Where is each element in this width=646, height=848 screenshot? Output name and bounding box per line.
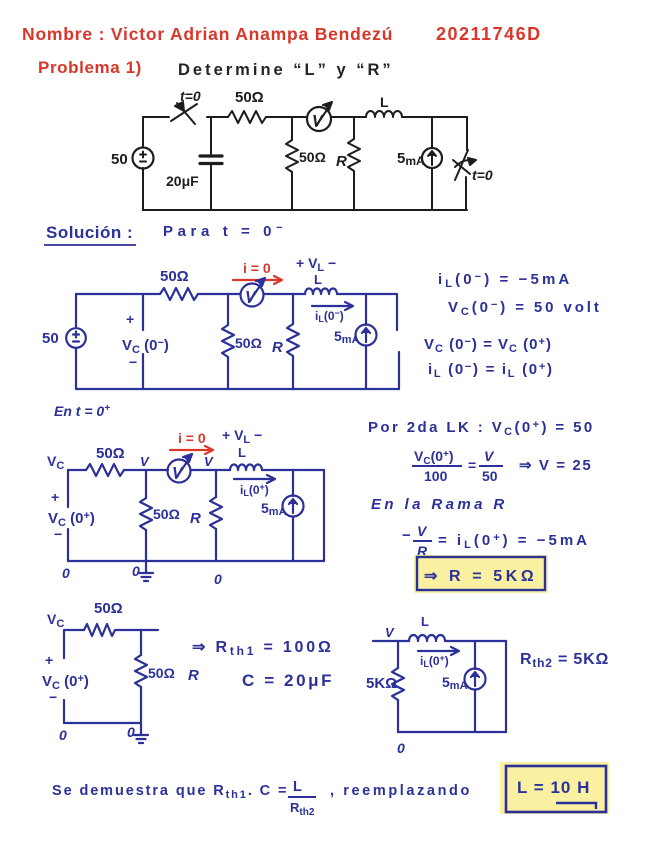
svg-text:Solución :: Solución :: [46, 223, 133, 242]
wire right vertical lower (open switch): [398, 352, 400, 389]
highlight glow L=10H: [500, 762, 609, 814]
svg-text:0: 0: [59, 727, 67, 743]
wire capacitor branch lower: [210, 165, 212, 210]
svg-text:50: 50: [482, 468, 498, 484]
svg-text:L = 10 H: L = 10 H: [517, 778, 590, 797]
wire current source branch lower: [431, 169, 433, 210]
svg-text:= iL(0+) = −5mA: = iL(0+) = −5mA: [438, 532, 590, 551]
underline flourish in L=10H box: [556, 803, 596, 809]
wire branch resistor upper (c4): [140, 630, 142, 655]
wire switch to node A: [207, 116, 228, 118]
resistor 50ohm vertical (c3): [140, 498, 152, 530]
svg-text:−: −: [54, 526, 62, 542]
svg-text:+: +: [51, 489, 59, 505]
svg-text:VC(0−) = 50 volt: VC(0−) = 50 volt: [448, 299, 602, 318]
svg-text:C = 20μF: C = 20μF: [242, 671, 334, 690]
svg-text:iL(0+): iL(0+): [240, 482, 269, 498]
wire bottom (c4): [64, 722, 141, 724]
wire left vertical upper (c4): [63, 630, 65, 658]
current source 5mA (c5): [465, 669, 486, 690]
EQ-SET-2: [368, 419, 595, 593]
svg-text:iL(0+): iL(0+): [420, 653, 449, 669]
PAGE-HEADER: [22, 24, 542, 79]
svg-text:⇒ Rth1 = 100Ω: ⇒ Rth1 = 100Ω: [192, 639, 334, 658]
wire current source branch upper: [431, 117, 433, 147]
wire capacitor branch upper: [210, 117, 212, 154]
wire branch 50ohm vertical lower: [291, 172, 293, 210]
svg-text:5mA: 5mA: [397, 150, 425, 168]
svg-text:50Ω: 50Ω: [94, 600, 123, 617]
svg-text:R: R: [188, 667, 199, 684]
wire branch 50ohm lower (c3): [145, 530, 147, 561]
arrow iL(0-) (c2): [312, 302, 353, 310]
svg-text:V: V: [140, 454, 150, 469]
svg-text:50: 50: [42, 330, 59, 347]
wire inductor to right corner: [337, 293, 396, 295]
wire top left segment (c4): [64, 629, 84, 631]
svg-text:50Ω: 50Ω: [96, 445, 125, 462]
wire top left segment (c5): [373, 640, 409, 642]
svg-text:⇒ R = 5KΩ: ⇒ R = 5KΩ: [424, 568, 537, 585]
CIRCUIT-1: [111, 88, 493, 210]
svg-text:−: −: [129, 354, 137, 370]
svg-text:V: V: [417, 523, 428, 539]
wire left vertical lower (c3): [67, 529, 69, 561]
svg-text:V: V: [484, 448, 495, 464]
svg-text:50Ω: 50Ω: [148, 665, 175, 681]
CIRCUIT-5: [366, 614, 609, 756]
svg-text:5KΩ: 5KΩ: [366, 675, 397, 692]
inductor L (c2): [305, 289, 337, 295]
SOLUCION-LINE: [44, 222, 287, 245]
svg-text:i = 0: i = 0: [178, 430, 206, 446]
switch S1 t=0: [171, 102, 197, 124]
wire current source branch upper (c3): [292, 470, 294, 496]
svg-text:En la Rama R: En la Rama R: [371, 496, 508, 513]
ground symbol (c3): [139, 561, 153, 581]
wire left vertical lower (c2): [75, 348, 77, 389]
wire current source branch lower (c2): [365, 346, 367, 389]
svg-text:0: 0: [132, 563, 140, 579]
svg-text:VC(0+): VC(0+): [414, 448, 454, 467]
svg-text:L: L: [293, 779, 302, 795]
svg-text:i = 0: i = 0: [243, 260, 271, 276]
label + Vc(0+) - (c4): [42, 652, 89, 705]
wire top from left corner to resistor (c3): [68, 469, 86, 471]
wire branch R vertical lower: [353, 171, 355, 210]
highlight glow R=5Kohm: [414, 555, 548, 593]
wire right vertical upper (open switch): [396, 294, 398, 330]
svg-text:En t = 0+: En t = 0+: [54, 403, 110, 419]
svg-text:L: L: [380, 94, 389, 110]
svg-text:L: L: [238, 445, 246, 460]
svg-text:+: +: [45, 652, 53, 668]
wire branch R lower (c3): [215, 529, 217, 561]
svg-text:iL(0−) = −5mA: iL(0−) = −5mA: [438, 271, 572, 290]
resistor 50ohm vertical (c2): [222, 325, 234, 357]
capacitor C1 20uF: [200, 156, 222, 164]
wire bottom (c5): [398, 731, 506, 733]
voltmeter (c3): [168, 454, 193, 483]
svg-text:50Ω: 50Ω: [235, 335, 262, 351]
svg-text:0: 0: [62, 565, 70, 581]
svg-text:50Ω: 50Ω: [299, 149, 326, 165]
wire inductor to top-right corner: [402, 116, 467, 118]
svg-text:0: 0: [214, 571, 222, 587]
highlight box R=5Kohm: [417, 557, 545, 590]
current arrow i=0 red (c3): [170, 446, 213, 454]
svg-text:+: +: [126, 311, 134, 327]
wire branch 50ohm lower (c2): [227, 357, 229, 389]
wire branch 50ohm upper (c3): [145, 470, 147, 498]
wire branch 50ohm upper (c2): [227, 294, 229, 325]
svg-text:50Ω: 50Ω: [153, 506, 180, 522]
resistor 50ohm vertical (c4): [135, 655, 147, 687]
resistor R vertical (c3): [210, 497, 222, 529]
svg-text:t=0: t=0: [472, 167, 493, 183]
svg-text:Por 2da LK : VC(0+) = 50: Por 2da LK : VC(0+) = 50: [368, 419, 595, 438]
inductor L (c3): [230, 465, 262, 470]
voltage source V1: [133, 148, 154, 169]
wire right vertical (c5): [505, 641, 507, 732]
voltmeter U1: [307, 102, 332, 131]
wire left vertical upper (c2): [75, 294, 77, 328]
highlight box L=10H: [506, 766, 606, 812]
svg-text:iL(0−): iL(0−): [315, 308, 344, 324]
resistor R vertical (c2): [287, 324, 299, 356]
wire branch resistor lower (c4): [140, 687, 142, 723]
wire current source branch upper (c2): [365, 294, 367, 325]
label + Vc(0-) - (c2): [122, 311, 169, 370]
svg-text:, reemplazando: , reemplazando: [330, 783, 472, 799]
resistor R1 50ohm horizontal: [228, 111, 266, 123]
svg-text:V: V: [385, 625, 395, 640]
wire bottom (c2): [76, 388, 399, 390]
wire branch R lower (c2): [292, 356, 294, 389]
CIRCUIT-3: [47, 403, 324, 587]
inductor L1: [366, 111, 402, 117]
wire branch R upper (c2): [292, 294, 294, 324]
svg-text:V: V: [172, 465, 184, 482]
svg-text:V: V: [312, 113, 324, 130]
label + Vc(0+) - (c3): [48, 489, 95, 542]
svg-text:L: L: [314, 272, 322, 287]
current source I1 5mA: [422, 148, 442, 168]
wire branch R upper (c3): [215, 470, 217, 497]
svg-text:0: 0: [127, 724, 135, 740]
svg-text:Rth2 = 5KΩ: Rth2 = 5KΩ: [520, 651, 609, 670]
equation -V/R = iL(0+) = -5mA: [402, 523, 590, 559]
wire top from left corner to resistor: [76, 293, 160, 295]
resistor 50ohm horizontal (c2): [160, 288, 198, 300]
inductor L (c5): [409, 635, 445, 641]
svg-text:R: R: [190, 510, 201, 527]
wire bottom: [143, 209, 467, 211]
svg-text:t=0: t=0: [180, 88, 201, 104]
svg-text:20211746D: 20211746D: [436, 24, 542, 44]
wire inductor to right corner (c3): [262, 469, 324, 471]
svg-text:R: R: [272, 339, 283, 356]
svg-text:VC (0−) = VC (0+): VC (0−) = VC (0+): [424, 336, 552, 355]
resistor 50ohm horizontal (c4): [84, 624, 115, 636]
wire capacitor-voltage branch upper (c2): [142, 294, 144, 330]
svg-text:50Ω: 50Ω: [160, 268, 189, 285]
svg-text:−: −: [49, 689, 57, 705]
wire top-left segment: [143, 116, 169, 118]
current source 5mA (c3): [283, 496, 304, 517]
wire branch R vertical upper: [353, 117, 355, 139]
svg-text:+ VL −: + VL −: [222, 427, 262, 446]
wire R1 to voltmeter: [266, 116, 307, 118]
svg-text:Para t = 0−: Para t = 0−: [163, 222, 287, 240]
wire capacitor-voltage branch lower (c2): [142, 354, 144, 389]
svg-text:20μF: 20μF: [166, 173, 199, 189]
wire right vertical (c3): [323, 470, 325, 561]
svg-text:VC: VC: [47, 453, 64, 472]
svg-text:0: 0: [397, 740, 405, 756]
wire left vertical lower (c5): [397, 700, 399, 732]
voltage source 50 (c2): [66, 328, 86, 348]
wire branch 50ohm vertical upper: [291, 117, 293, 140]
ground symbol (c4): [134, 723, 148, 743]
CIRCUIT-2: [42, 255, 399, 389]
wire current source branch lower (c5): [474, 690, 476, 732]
wire bottom (c3): [68, 560, 324, 562]
svg-text:50Ω: 50Ω: [235, 89, 264, 106]
svg-text:R: R: [336, 153, 347, 170]
svg-text:⇒ V = 25: ⇒ V = 25: [519, 457, 592, 474]
svg-text:V: V: [245, 289, 257, 306]
svg-text:VC: VC: [47, 611, 64, 630]
current arrow i=0 red (c2): [233, 276, 282, 284]
resistor R3 R vertical: [348, 139, 360, 171]
resistor R2 50ohm vertical: [286, 140, 298, 172]
equation fraction Vc(0+)/100 = V/50: [412, 448, 503, 484]
svg-text:Nombre : Victor Adrian Anampa: Nombre : Victor Adrian Anampa Bendezú: [22, 24, 393, 44]
wire voltmeter to node V right (c3): [191, 469, 230, 471]
arrow iL(0+) (c5): [418, 647, 459, 655]
wire left vertical upper (c3): [67, 470, 69, 507]
svg-text:Se demuestra que Rth1. C: Se demuestra que Rth1. C =: [52, 783, 288, 801]
wire inductor to right corner (c5): [445, 640, 506, 642]
fraction L / Rth2: [288, 779, 316, 818]
wire resistor to node V (c3): [124, 469, 168, 471]
CIRCUIT-4: [42, 600, 334, 743]
svg-text:=: =: [468, 457, 476, 473]
svg-text:iL (0−) = iL (0+): iL (0−) = iL (0+): [428, 361, 554, 380]
svg-text:Rth2: Rth2: [290, 800, 315, 818]
wire voltmeter to inductor: [331, 116, 366, 118]
wire resistor to voltmeter: [198, 293, 240, 295]
svg-text:Determine “L” y “R”: Determine “L” y “R”: [178, 61, 394, 79]
resistor 50ohm horizontal (c3): [86, 464, 124, 476]
svg-text:Problema 1): Problema 1): [38, 58, 142, 77]
wire left vertical upper (c5): [397, 641, 399, 668]
svg-text:−: −: [402, 527, 411, 544]
svg-text:50: 50: [111, 151, 128, 168]
svg-text:100: 100: [424, 468, 448, 484]
svg-text:V: V: [204, 454, 214, 469]
current source 5mA (c2): [356, 325, 377, 346]
wire left vertical lower: [142, 168, 144, 210]
wire left vertical lower (c4): [63, 700, 65, 723]
wire right vertical upper: [466, 117, 468, 150]
wire top right segment (c4): [116, 629, 158, 631]
EQ-SET-1: [424, 271, 602, 380]
switch S2 t=0 right: [453, 150, 476, 180]
wire current source branch upper (c5): [474, 641, 476, 669]
resistor 5Kohm vertical (c5): [392, 668, 404, 700]
wire right vertical lower: [465, 177, 467, 210]
wire left vertical upper: [142, 117, 144, 147]
wire current source branch lower (c3): [292, 517, 294, 561]
underline of Solucion: [44, 244, 136, 246]
arrow iL(0+) (c3): [234, 475, 275, 483]
voltmeter (c2): [241, 278, 266, 307]
wire voltmeter to inductor: [264, 293, 305, 295]
BOTTOM-LINE: [52, 762, 609, 818]
svg-text:L: L: [421, 614, 429, 629]
